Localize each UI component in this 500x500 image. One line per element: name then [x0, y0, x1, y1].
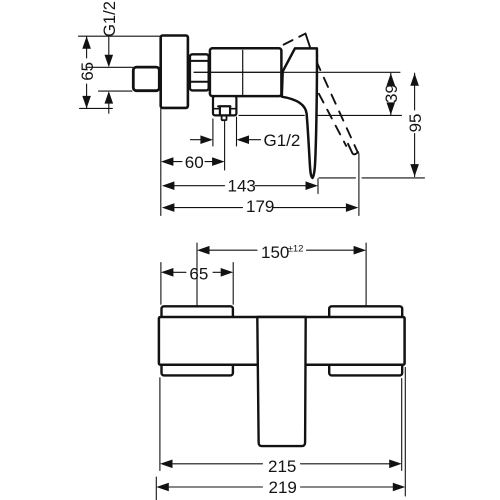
dimension 60 [161, 157, 174, 166]
svg-text:65: 65 [189, 264, 208, 283]
dimension 143 [162, 181, 175, 190]
extension line wall top [79, 35, 161, 37]
extension 65 right [232, 263, 234, 305]
extension line handle tip right [319, 177, 356, 179]
handle (side view, down position) [282, 48, 317, 178]
escutcheon left (front) [162, 306, 233, 375]
extension line handle tip vertical [317, 179, 319, 194]
extension line outlet bottom right [239, 114, 304, 116]
svg-text:39: 39 [382, 84, 401, 103]
dimension 65 bottom [161, 268, 174, 277]
extension 219 right [404, 368, 406, 497]
dimension G1/2 top: line [108, 37, 110, 56]
extension line outlet center vertical [224, 122, 226, 171]
extension line escutcheon bottom [80, 107, 113, 109]
dimension 219 [156, 483, 169, 492]
hex nut band line upper [189, 60, 209, 62]
hex nut [190, 54, 209, 90]
svg-text:95: 95 [406, 113, 425, 132]
outlet sill left [213, 108, 220, 110]
dimension 179 [162, 203, 175, 212]
outlet nut top line [218, 105, 230, 107]
outlet flange [213, 96, 236, 115]
svg-text:G1/2: G1/2 [264, 131, 301, 150]
dimension G1/2 outlet arrows [191, 139, 203, 141]
dashed lever up-position end cap [306, 34, 311, 48]
mixer body (side view) [210, 48, 282, 96]
body bar (front) [159, 317, 405, 365]
dimension 65 left: line [86, 36, 88, 58]
body cartridge line [242, 50, 244, 94]
extension 65 left [160, 263, 162, 305]
extension line outlet left vertical [212, 119, 214, 146]
svg-text:G1/2: G1/2 [101, 1, 119, 37]
extension 215 right [401, 379, 403, 471]
svg-text:143: 143 [228, 177, 256, 196]
center line right union [365, 243, 367, 321]
svg-text:219: 219 [269, 478, 297, 497]
wall inlet square [133, 67, 159, 91]
outlet nut face [220, 106, 230, 115]
svg-text:±12: ±12 [288, 244, 304, 255]
body center line [211, 71, 281, 73]
outlet sill right [230, 108, 236, 110]
hex nut band line lower [189, 81, 209, 83]
extension line inlet top [86, 66, 133, 68]
dashed lever swung edge right [310, 48, 357, 152]
extension 219 left [155, 477, 157, 500]
dimension 39 right [390, 73, 392, 81]
nut center line [194, 71, 209, 73]
dashed lever tip cap [348, 144, 358, 155]
dimension 215 [160, 460, 173, 469]
outlet nib [222, 116, 227, 121]
svg-text:215: 215 [268, 457, 296, 476]
center line left union [196, 243, 198, 320]
center line horizontal (top view axis) [194, 71, 400, 73]
svg-text:60: 60 [185, 153, 204, 172]
extension line inlet bottom [99, 90, 133, 92]
dimension 95 right [414, 73, 416, 110]
extension line outlet right vertical [236, 117, 238, 146]
svg-text:179: 179 [246, 197, 274, 216]
extension line wall vertical [160, 108, 162, 215]
dimension 150 [197, 246, 210, 255]
extension line lever tip vertical [358, 154, 360, 216]
escutcheon right (front) [329, 306, 402, 375]
svg-text:65: 65 [78, 62, 97, 81]
extension 215 left [159, 378, 161, 471]
svg-text:150: 150 [261, 243, 289, 262]
dashed lever swung edge left [319, 94, 346, 146]
handle (front) [257, 317, 305, 446]
dashed lever up-position back edge [284, 34, 306, 45]
escutcheon (side view) [161, 36, 188, 108]
